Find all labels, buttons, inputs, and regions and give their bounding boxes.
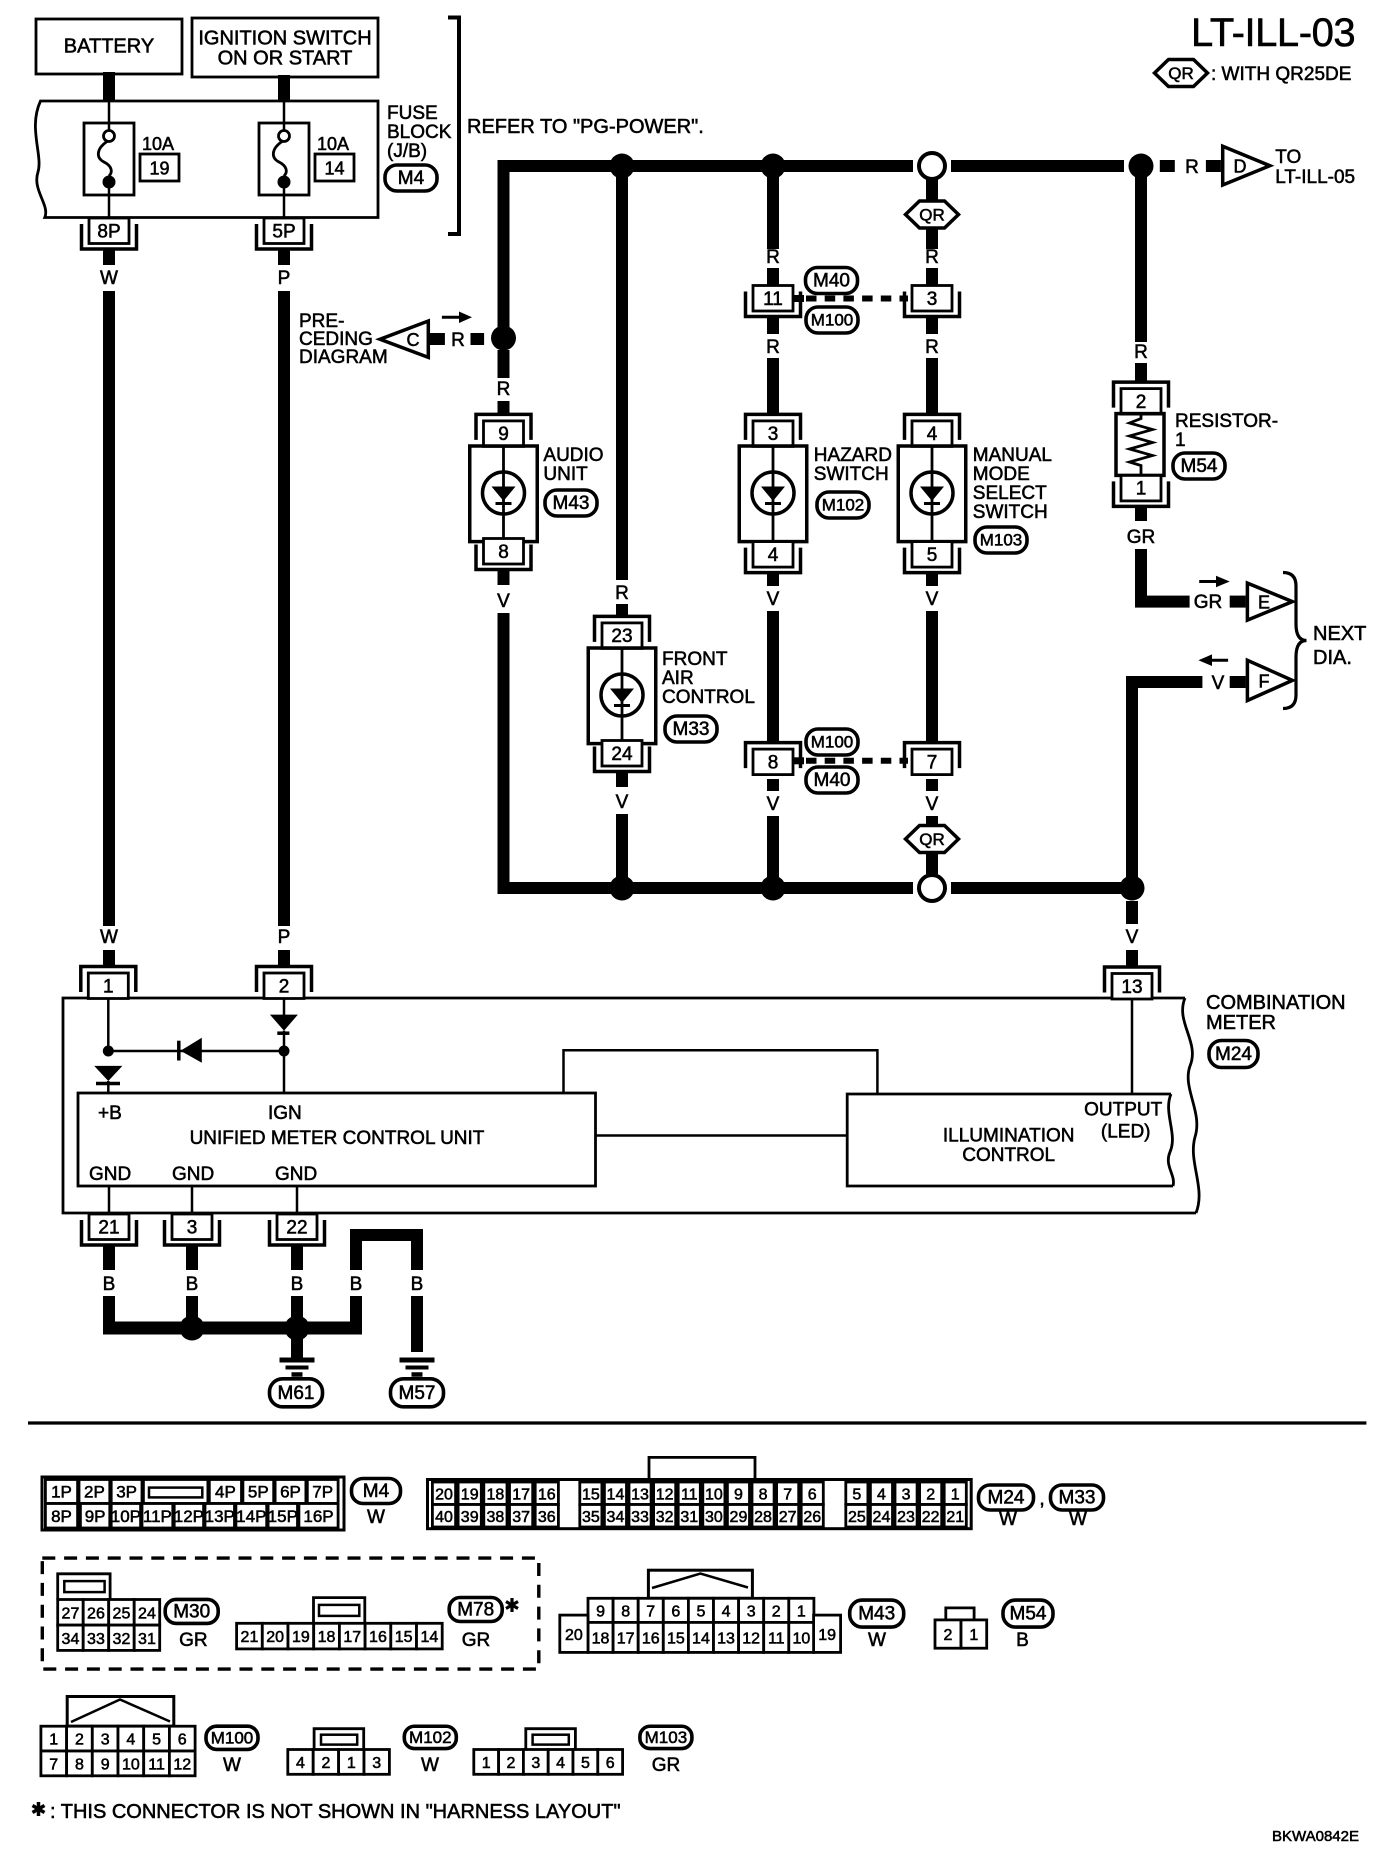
- svg-text:MODE: MODE: [973, 464, 1030, 485]
- wire B pin22: [291, 1245, 303, 1270]
- ground symbol M61: [280, 1358, 315, 1363]
- fuse 19 10A: [84, 123, 134, 195]
- svg-text:12: 12: [656, 1486, 674, 1503]
- wire ignition to fuse block: [278, 75, 290, 102]
- svg-text:5: 5: [927, 545, 938, 566]
- hazard switch bulb: [739, 446, 807, 542]
- svg-text:1: 1: [951, 1486, 960, 1503]
- svg-text:19: 19: [292, 1629, 310, 1646]
- connector face M78: [314, 1598, 365, 1624]
- connector 7: [905, 743, 960, 769]
- svg-text:39: 39: [461, 1509, 479, 1526]
- connector face M102: [314, 1729, 364, 1750]
- wire V hazard to connector 8: [767, 572, 779, 586]
- svg-text:31: 31: [680, 1509, 698, 1526]
- svg-text:14: 14: [607, 1486, 625, 1503]
- svg-text:5: 5: [152, 1732, 161, 1749]
- svg-text:9: 9: [101, 1756, 110, 1773]
- svg-text:W: W: [100, 268, 118, 289]
- svg-text:16P: 16P: [303, 1507, 333, 1526]
- svg-text:M4: M4: [398, 168, 425, 189]
- wire R stub from C: [430, 333, 445, 345]
- wire V connector 7 to QR hex: [926, 779, 938, 791]
- svg-text:OUTPUT: OUTPUT: [1084, 1100, 1163, 1121]
- svg-text:V: V: [1212, 673, 1225, 694]
- svg-text:DIAGRAM: DIAGRAM: [299, 347, 388, 368]
- svg-text:8: 8: [621, 1603, 630, 1620]
- svg-text:ON OR START: ON OR START: [218, 48, 353, 70]
- svg-text:M57: M57: [399, 1383, 436, 1404]
- svg-text:: WITH QR25DE: : WITH QR25DE: [1211, 64, 1351, 85]
- svg-text:21: 21: [946, 1509, 964, 1526]
- svg-text:R: R: [766, 337, 780, 358]
- wire GR corner to E: [1135, 596, 1190, 608]
- junction node IGN: [279, 1046, 290, 1057]
- svg-text:33: 33: [87, 1631, 105, 1648]
- ground connector M61: [270, 1379, 323, 1407]
- arrow direction left above F: [1209, 659, 1228, 662]
- connector pin 1 meter: [81, 967, 136, 993]
- svg-text:14P: 14P: [236, 1507, 266, 1526]
- svg-text:M40: M40: [813, 271, 850, 292]
- svg-text:35: 35: [582, 1509, 600, 1526]
- svg-text:B: B: [291, 1274, 304, 1295]
- wire bus to front air control: [616, 166, 628, 580]
- wire internal horizontal: [108, 1050, 284, 1053]
- wire pin2 internal: [283, 999, 286, 1016]
- svg-text:2: 2: [507, 1755, 516, 1772]
- crossing node manual bottom QR: [919, 875, 945, 901]
- QR legend symbol: [1155, 60, 1208, 87]
- svg-text:5: 5: [852, 1486, 861, 1503]
- connector pin 8 audio unit: [476, 545, 531, 570]
- arrow C from preceding diagram: [380, 321, 428, 357]
- junction node hazard: [761, 154, 786, 179]
- svg-text:16: 16: [538, 1486, 556, 1503]
- svg-text:M54: M54: [1181, 456, 1218, 477]
- svg-text:R: R: [451, 330, 465, 351]
- front air control bulb: [588, 648, 656, 744]
- svg-text:W: W: [1069, 1509, 1087, 1530]
- crossing node manual-mode QR: [919, 153, 945, 179]
- svg-text:LT-ILL-05: LT-ILL-05: [1275, 167, 1355, 188]
- svg-text:11: 11: [763, 289, 783, 310]
- svg-text:M78: M78: [457, 1600, 494, 1621]
- svg-text:E: E: [1258, 593, 1270, 613]
- svg-text:2: 2: [944, 1627, 953, 1644]
- svg-text:3: 3: [927, 289, 938, 310]
- wire inverted U to M57: [350, 1229, 423, 1241]
- diode D1 to +B: [94, 1066, 122, 1081]
- svg-text:IGN: IGN: [268, 1103, 302, 1124]
- harness link M40/M100 dashed top: [793, 295, 804, 302]
- svg-text:V: V: [497, 591, 510, 612]
- svg-text:BATTERY: BATTERY: [64, 36, 154, 58]
- fuse block connector M4: [385, 165, 437, 191]
- svg-text:BKWA0842E: BKWA0842E: [1272, 1828, 1359, 1845]
- svg-text:7P: 7P: [312, 1483, 333, 1502]
- svg-text:15: 15: [667, 1630, 685, 1647]
- svg-text:GR: GR: [179, 1630, 208, 1651]
- svg-text:ILLUMINATION: ILLUMINATION: [943, 1126, 1075, 1147]
- svg-text:M61: M61: [278, 1383, 315, 1404]
- svg-text:3: 3: [902, 1486, 911, 1503]
- svg-text:22: 22: [922, 1509, 940, 1526]
- wire QR hex to connector 3: [926, 227, 938, 249]
- svg-text:4: 4: [877, 1486, 886, 1503]
- wire to ground M61: [291, 1334, 303, 1358]
- audio unit bulb: [470, 446, 538, 542]
- svg-text:TO: TO: [1275, 147, 1301, 168]
- svg-text:2: 2: [1136, 392, 1147, 413]
- svg-text:30: 30: [705, 1509, 723, 1526]
- svg-text:F: F: [1259, 672, 1270, 692]
- svg-text:13: 13: [631, 1486, 649, 1503]
- svg-text:2: 2: [321, 1755, 330, 1772]
- svg-text:R: R: [925, 337, 939, 358]
- svg-text:4: 4: [927, 424, 938, 445]
- junction node resistor: [1129, 154, 1154, 179]
- connector label M33: [1051, 1485, 1104, 1510]
- unified meter control unit box: [78, 1093, 596, 1186]
- svg-text:20: 20: [266, 1629, 284, 1646]
- svg-text:GR: GR: [1194, 592, 1223, 613]
- svg-text:+B: +B: [98, 1103, 122, 1124]
- wire V bus to pin 13: [1126, 901, 1138, 924]
- svg-text:9: 9: [498, 424, 509, 445]
- svg-text:C: C: [407, 330, 420, 350]
- connector pin 24 front air: [595, 747, 650, 772]
- svg-text:10: 10: [122, 1756, 140, 1773]
- svg-text:QR: QR: [1168, 64, 1194, 83]
- QR condition hexagon top: [906, 201, 959, 228]
- svg-text:V: V: [767, 794, 780, 815]
- connector label M24: [979, 1485, 1034, 1510]
- dashed harness box: [42, 1558, 539, 1669]
- wire W from 8P: [103, 249, 115, 265]
- svg-text:R: R: [1134, 342, 1148, 363]
- svg-text:6: 6: [178, 1732, 187, 1749]
- svg-text:19: 19: [149, 159, 169, 179]
- svg-text:10A: 10A: [317, 134, 349, 154]
- wire V stub F: [1230, 676, 1246, 688]
- svg-text:M40: M40: [814, 770, 851, 791]
- svg-text:15P: 15P: [268, 1507, 298, 1526]
- wire umcu to illumination control: [596, 1134, 848, 1137]
- svg-text:13: 13: [717, 1630, 735, 1647]
- svg-text:1: 1: [797, 1603, 806, 1620]
- svg-text:B: B: [186, 1274, 199, 1295]
- svg-text:14: 14: [692, 1630, 710, 1647]
- svg-text:UNIFIED METER CONTROL UNIT: UNIFIED METER CONTROL UNIT: [190, 1128, 485, 1149]
- wire V audio unit to bus: [498, 570, 510, 585]
- diode D3 pointing left: [177, 1041, 181, 1061]
- wire bus to audio unit: [498, 166, 510, 332]
- wire gnd2 internal: [191, 1186, 194, 1214]
- svg-text:SWITCH: SWITCH: [973, 502, 1048, 523]
- svg-text:M43: M43: [553, 493, 590, 514]
- svg-text:9P: 9P: [85, 1507, 106, 1526]
- svg-text:B: B: [1016, 1630, 1029, 1651]
- connector M40 bottom: [806, 767, 858, 793]
- svg-text:P: P: [278, 268, 291, 289]
- connector pin 4 hazard switch: [746, 548, 801, 573]
- resistor-1 body: [1116, 414, 1164, 476]
- svg-text:LT-ILL-03: LT-ILL-03: [1191, 11, 1355, 55]
- svg-text:M103: M103: [645, 1728, 688, 1747]
- svg-text:26: 26: [803, 1509, 821, 1526]
- svg-text:3: 3: [768, 424, 779, 445]
- svg-text:13P: 13P: [205, 1507, 235, 1526]
- svg-text:8P: 8P: [51, 1507, 72, 1526]
- wire P from 5P: [278, 249, 290, 265]
- junction node C / audio column: [491, 326, 516, 351]
- svg-text:V: V: [926, 794, 939, 815]
- connector label M103: [640, 1726, 692, 1748]
- svg-text:M102: M102: [409, 1728, 452, 1747]
- connector face M54: [946, 1608, 974, 1620]
- ground connector M57: [391, 1379, 444, 1407]
- svg-text:3: 3: [101, 1732, 110, 1749]
- svg-text:QR: QR: [919, 830, 945, 849]
- connector face M4 grid: [42, 1477, 344, 1530]
- svg-text:M100: M100: [811, 733, 854, 752]
- svg-text:4: 4: [126, 1732, 135, 1749]
- svg-text:4: 4: [768, 545, 779, 566]
- svg-text:M33: M33: [1059, 1488, 1096, 1509]
- svg-text:GR: GR: [462, 1630, 491, 1651]
- svg-text:9: 9: [734, 1486, 743, 1503]
- svg-text:V: V: [926, 589, 939, 610]
- svg-text:11: 11: [768, 1630, 785, 1647]
- svg-text:14: 14: [324, 159, 344, 179]
- svg-text:1: 1: [482, 1755, 491, 1772]
- svg-text:2: 2: [75, 1732, 84, 1749]
- wire bus to connector 11: [767, 166, 779, 249]
- svg-text:GR: GR: [652, 1755, 681, 1776]
- svg-text:10: 10: [792, 1630, 810, 1647]
- svg-text:FRONT: FRONT: [662, 649, 728, 670]
- connector label M43: [850, 1600, 904, 1627]
- connector 11: [746, 292, 801, 317]
- svg-text:W: W: [223, 1755, 241, 1776]
- svg-text:4: 4: [556, 1755, 565, 1772]
- connector M100 top: [806, 307, 858, 333]
- connector pin 3 hazard switch: [746, 414, 801, 440]
- svg-text:1: 1: [347, 1755, 356, 1772]
- svg-text:11P: 11P: [143, 1507, 172, 1526]
- svg-text:M103: M103: [980, 531, 1023, 550]
- connector face M103: [526, 1729, 576, 1750]
- svg-text:METER: METER: [1206, 1012, 1276, 1034]
- svg-text:1: 1: [1136, 479, 1147, 500]
- svg-text:13: 13: [1121, 977, 1142, 998]
- footnote star: [33, 1802, 45, 1816]
- svg-text:AIR: AIR: [662, 668, 694, 689]
- svg-text:DIA.: DIA.: [1313, 647, 1352, 669]
- svg-text:P: P: [278, 927, 291, 948]
- svg-text:IGNITION SWITCH: IGNITION SWITCH: [198, 28, 371, 50]
- svg-text:REFER TO "PG-POWER".: REFER TO "PG-POWER".: [467, 116, 704, 138]
- svg-text:M54: M54: [1010, 1604, 1047, 1625]
- connector 5P: [257, 224, 312, 249]
- svg-text:D: D: [1234, 157, 1247, 177]
- ground symbol M57: [400, 1358, 435, 1363]
- svg-text:8: 8: [75, 1756, 84, 1773]
- svg-text:32: 32: [656, 1509, 674, 1526]
- svg-text:V: V: [767, 589, 780, 610]
- junction node front-air: [610, 154, 635, 179]
- svg-text:18: 18: [592, 1630, 610, 1647]
- ignition switch box: [192, 18, 378, 77]
- svg-text:40: 40: [435, 1509, 453, 1526]
- connector pin 3 gnd: [165, 1220, 220, 1245]
- svg-text:23: 23: [611, 626, 632, 647]
- svg-text:10P: 10P: [111, 1507, 141, 1526]
- svg-text:GR: GR: [1127, 527, 1156, 548]
- svg-text:31: 31: [138, 1631, 156, 1648]
- svg-text:8: 8: [759, 1486, 768, 1503]
- svg-text:15: 15: [395, 1629, 413, 1646]
- svg-text:7: 7: [646, 1603, 655, 1620]
- fuse block J/B box: [35, 101, 378, 218]
- svg-text:1: 1: [969, 1627, 978, 1644]
- svg-text:8P: 8P: [97, 221, 120, 242]
- svg-text:22: 22: [286, 1217, 307, 1238]
- arrow direction right above E: [1199, 580, 1219, 583]
- wire pin 13 to illumination control: [1131, 999, 1134, 1095]
- svg-text:12P: 12P: [174, 1507, 204, 1526]
- svg-text:FUSE: FUSE: [387, 103, 438, 124]
- svg-text:9: 9: [596, 1603, 605, 1620]
- connector label M100: [206, 1726, 258, 1749]
- svg-text:24: 24: [611, 744, 633, 765]
- brace next dia: [1283, 573, 1307, 709]
- wire bus to resistor: [1135, 172, 1147, 342]
- connector pin 4 manual mode switch: [905, 414, 960, 440]
- svg-text:29: 29: [730, 1509, 748, 1526]
- svg-text:28: 28: [754, 1509, 772, 1526]
- svg-text:NEXT: NEXT: [1313, 623, 1366, 645]
- svg-text:26: 26: [87, 1605, 105, 1622]
- svg-text:CONTROL: CONTROL: [662, 687, 755, 708]
- svg-text:M102: M102: [822, 496, 865, 515]
- svg-text:8: 8: [768, 752, 779, 773]
- svg-text:M24: M24: [988, 1488, 1025, 1509]
- svg-text:V: V: [616, 792, 629, 813]
- svg-text:6: 6: [671, 1603, 680, 1620]
- fuse 19 number box: [140, 154, 179, 181]
- divider line: [28, 1421, 1366, 1424]
- ground bus wire: [103, 1322, 362, 1335]
- svg-text:1: 1: [103, 976, 114, 997]
- wire QR hex to bus crossing: [926, 853, 938, 875]
- QR condition hexagon bottom: [906, 826, 959, 853]
- arrow direction right: [442, 316, 462, 319]
- connector label M30: [165, 1599, 218, 1623]
- connector pin 2 meter: [257, 967, 312, 993]
- connector pin 1 resistor: [1114, 481, 1169, 506]
- svg-text:10A: 10A: [142, 134, 174, 154]
- connector pin 13 meter: [1105, 967, 1160, 993]
- diode D2 from IGN pin2: [270, 1015, 298, 1031]
- svg-text:R: R: [766, 247, 780, 268]
- svg-text:B: B: [350, 1274, 363, 1295]
- connector face M43 grid: [648, 1570, 752, 1598]
- svg-text:24: 24: [873, 1509, 891, 1526]
- svg-text:7: 7: [783, 1486, 792, 1503]
- svg-text:R: R: [497, 379, 511, 400]
- svg-text:20: 20: [435, 1486, 453, 1503]
- front air connector M33: [665, 716, 717, 742]
- combination meter box: [63, 998, 1196, 1213]
- junction node gnd2: [180, 1316, 205, 1341]
- svg-text:2: 2: [926, 1486, 935, 1503]
- svg-text:16: 16: [369, 1629, 387, 1646]
- svg-text:SELECT: SELECT: [973, 483, 1047, 504]
- svg-text:R: R: [925, 247, 939, 268]
- wire pin1 internal: [107, 999, 110, 1052]
- svg-text:12: 12: [742, 1630, 760, 1647]
- svg-text:BLOCK: BLOCK: [387, 122, 452, 143]
- connector pin 23 front air: [595, 616, 650, 642]
- junction node hazard bottom: [761, 876, 786, 901]
- svg-text:21: 21: [98, 1217, 119, 1238]
- svg-text:AUDIO: AUDIO: [543, 445, 603, 466]
- top bus wire: [498, 160, 914, 172]
- wire loop umcu to illumination: [564, 1050, 878, 1094]
- svg-text:GND: GND: [172, 1164, 214, 1185]
- svg-text:12: 12: [173, 1756, 191, 1773]
- svg-text:M4: M4: [363, 1481, 390, 1502]
- wire V from F to bus: [1126, 676, 1202, 688]
- svg-text:27: 27: [779, 1509, 797, 1526]
- svg-text:,: ,: [1039, 1488, 1045, 1510]
- svg-text:HAZARD: HAZARD: [814, 445, 892, 466]
- wire V front air to bus: [616, 772, 628, 787]
- svg-text:8: 8: [498, 542, 509, 563]
- svg-text:W: W: [999, 1509, 1017, 1530]
- svg-text:24: 24: [138, 1605, 156, 1622]
- wire GR resistor down: [1135, 506, 1147, 521]
- svg-text:18: 18: [487, 1486, 505, 1503]
- svg-text:R: R: [1185, 157, 1199, 178]
- svg-text:3P: 3P: [116, 1483, 137, 1502]
- connector M40 top: [806, 268, 858, 294]
- resistor connector M54: [1173, 453, 1225, 479]
- svg-text:QR: QR: [919, 206, 945, 225]
- connector 8P: [82, 224, 137, 249]
- junction node +B: [103, 1046, 114, 1057]
- svg-text:M24: M24: [1215, 1044, 1252, 1065]
- illumination control box: [847, 1094, 1173, 1186]
- svg-text:2P: 2P: [84, 1483, 105, 1502]
- wire V manual mode to connector 7: [926, 572, 938, 586]
- svg-text:34: 34: [62, 1631, 80, 1648]
- svg-text:5P: 5P: [272, 221, 295, 242]
- svg-text:1P: 1P: [51, 1483, 72, 1502]
- svg-text:(J/B): (J/B): [387, 141, 427, 162]
- fuse 14 10A: [259, 123, 309, 195]
- connector label M102: [404, 1726, 456, 1748]
- svg-text:MANUAL: MANUAL: [973, 445, 1052, 466]
- svg-text:7: 7: [49, 1756, 58, 1773]
- svg-text:4P: 4P: [215, 1483, 236, 1502]
- connector M100 bottom: [806, 729, 858, 755]
- svg-text:M30: M30: [173, 1601, 210, 1622]
- svg-text:14: 14: [420, 1629, 438, 1646]
- svg-text:37: 37: [512, 1509, 530, 1526]
